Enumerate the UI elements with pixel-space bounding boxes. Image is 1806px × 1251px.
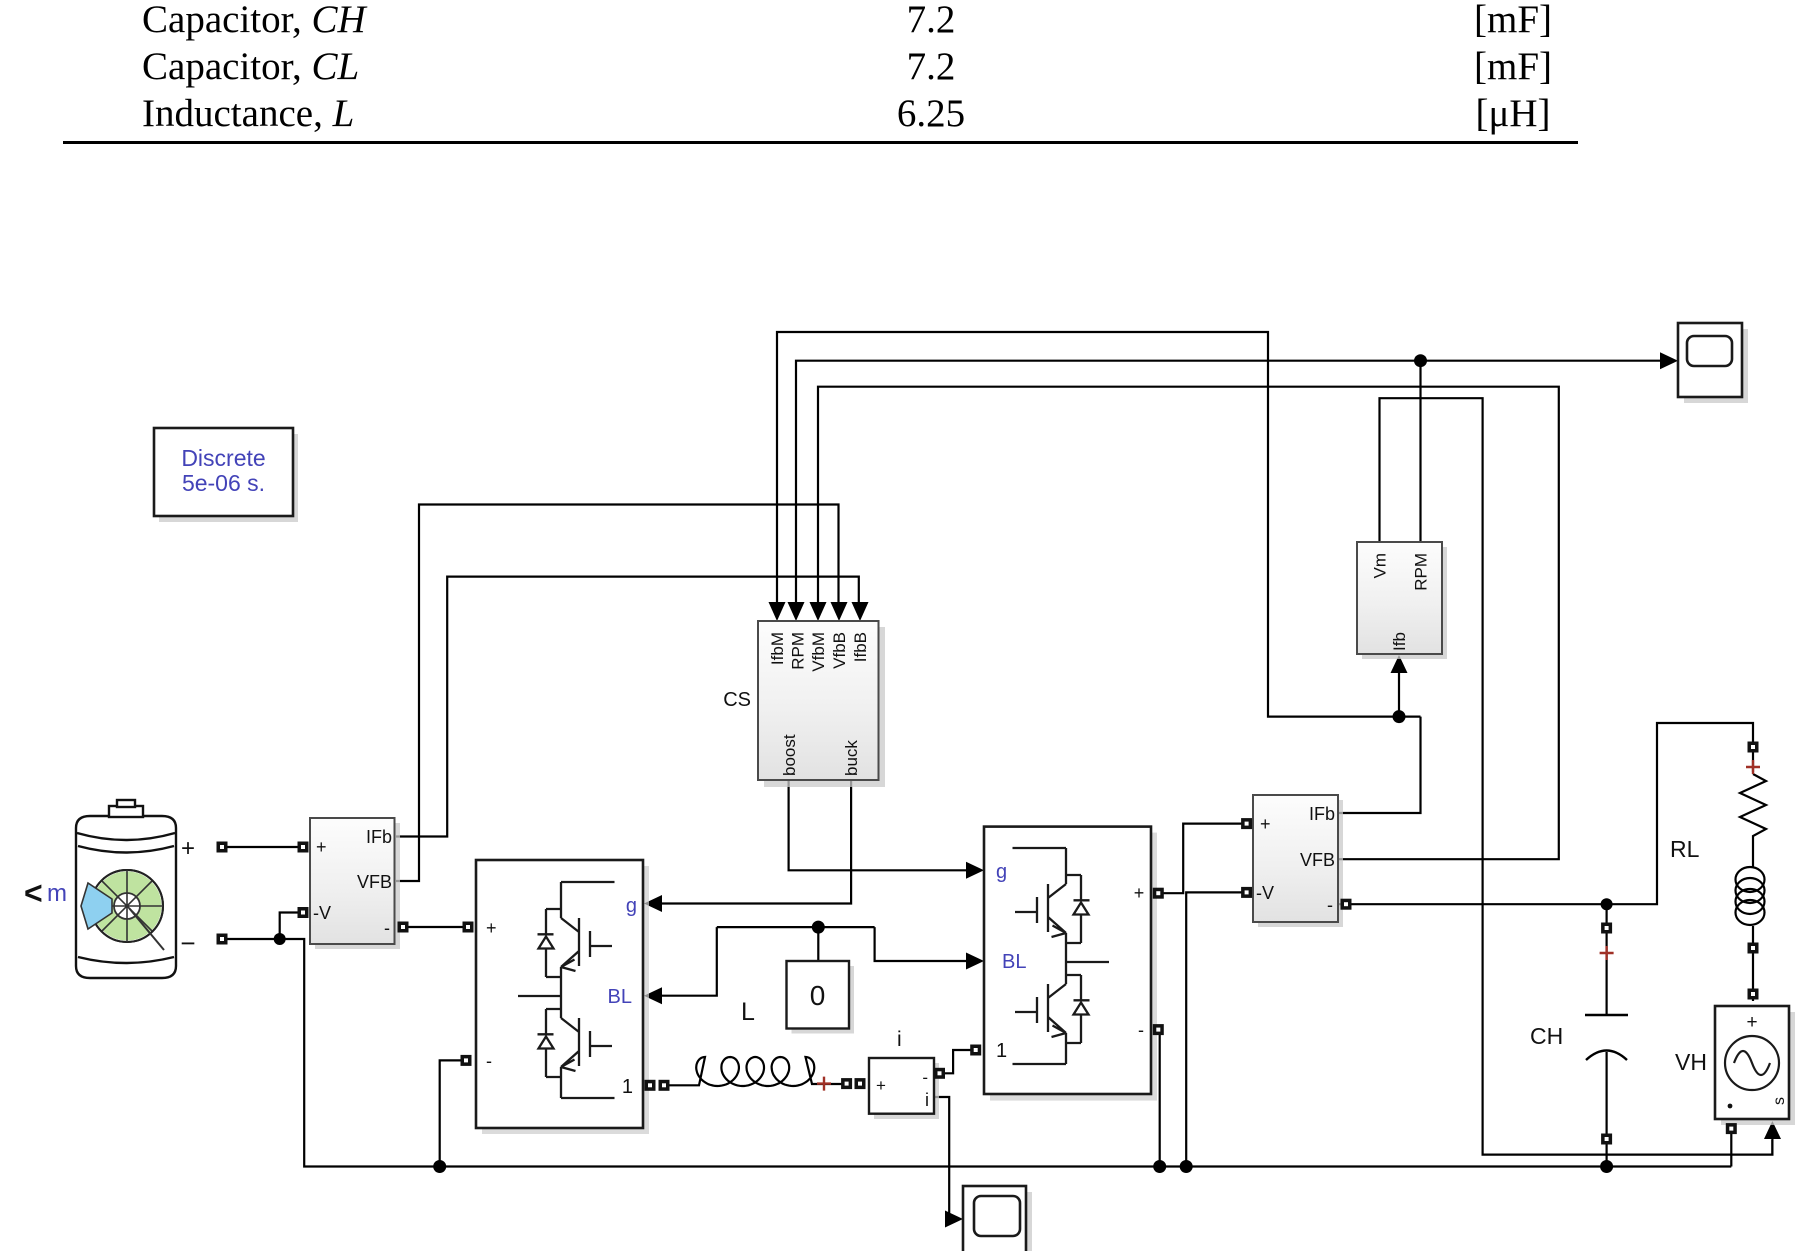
svg-text:+: + <box>181 835 195 862</box>
svg-text:i: i <box>897 1028 902 1051</box>
svg-text:-: - <box>1138 1020 1144 1040</box>
svg-text:5e-06 s.: 5e-06 s. <box>182 470 265 496</box>
svg-text:Vm: Vm <box>1371 553 1390 579</box>
svg-text:L: L <box>741 998 755 1026</box>
svg-text:RPM: RPM <box>789 632 808 670</box>
svg-text:1: 1 <box>622 1076 633 1098</box>
svg-text:RL: RL <box>1670 836 1700 862</box>
svg-text:RPM: RPM <box>1412 553 1431 591</box>
svg-text:s: s <box>1771 1097 1788 1105</box>
svg-text:+: + <box>1134 883 1145 903</box>
svg-text:Discrete: Discrete <box>181 445 265 471</box>
svg-text:+: + <box>316 837 327 857</box>
svg-text:−: − <box>180 928 195 958</box>
svg-text:-: - <box>922 1068 928 1087</box>
svg-text:+: + <box>486 918 497 938</box>
svg-text:VfbB: VfbB <box>830 632 849 669</box>
svg-text:m: m <box>47 880 67 907</box>
svg-text:+: + <box>1746 1012 1757 1033</box>
svg-text:boost: boost <box>780 734 799 776</box>
svg-text:+: + <box>1260 814 1271 834</box>
svg-text:BL: BL <box>1002 951 1026 973</box>
svg-text:-: - <box>486 1051 492 1071</box>
svg-text:-V: -V <box>1256 883 1274 903</box>
svg-text:g: g <box>996 861 1007 883</box>
svg-text:i: i <box>925 1090 929 1110</box>
svg-text:IfbB: IfbB <box>851 632 870 662</box>
svg-text:IfbM: IfbM <box>768 632 787 665</box>
svg-text:BL: BL <box>608 986 632 1008</box>
svg-text:VH: VH <box>1675 1049 1707 1075</box>
svg-text:+: + <box>876 1076 886 1095</box>
svg-text:CH: CH <box>1530 1023 1563 1049</box>
svg-text:IFb: IFb <box>1309 804 1335 824</box>
svg-text:0: 0 <box>810 980 826 1011</box>
svg-text:VFB: VFB <box>357 872 392 892</box>
svg-text:-: - <box>1327 895 1333 915</box>
svg-text:-: - <box>384 918 390 938</box>
svg-text:CS: CS <box>723 689 751 711</box>
svg-text:-V: -V <box>313 903 331 923</box>
svg-text:Ifb: Ifb <box>1390 632 1409 651</box>
svg-text:VfbM: VfbM <box>809 632 828 672</box>
svg-text:IFb: IFb <box>366 827 392 847</box>
svg-text:g: g <box>626 895 637 917</box>
svg-text:buck: buck <box>842 740 861 776</box>
svg-text:<: < <box>24 875 43 911</box>
svg-text:VFB: VFB <box>1300 850 1335 870</box>
svg-text:1: 1 <box>996 1040 1007 1062</box>
